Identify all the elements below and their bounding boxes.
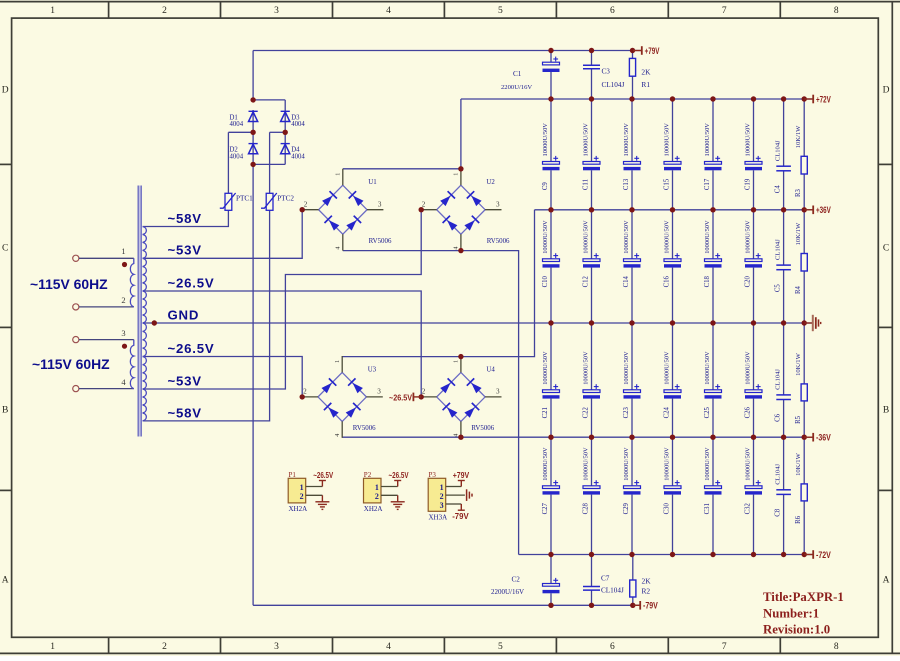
thermistor PTC2	[261, 193, 294, 210]
svg-text:C30: C30	[664, 502, 671, 514]
transformer primary pin 4	[73, 386, 79, 392]
svg-text:~26.5V: ~26.5V	[389, 470, 409, 480]
ground on P2 pin 2	[391, 495, 405, 509]
svg-text:XH3A: XH3A	[429, 513, 448, 521]
wire PTC1 bottom to ~58V tap	[143, 210, 229, 226]
svg-text:C29: C29	[623, 502, 630, 514]
svg-text:10K/1W: 10K/1W	[795, 352, 802, 375]
svg-text:2: 2	[304, 201, 308, 209]
svg-text:3: 3	[378, 201, 382, 209]
diode D1 4004	[230, 111, 258, 128]
svg-text:C24: C24	[664, 406, 671, 418]
capacitor C13 10000U/50V	[623, 99, 641, 210]
svg-text:6: 6	[610, 642, 615, 652]
wire +79V top rail	[253, 50, 641, 52]
resistor R3 10K/1W	[795, 99, 807, 210]
wire PTC1 top lead	[227, 132, 229, 193]
svg-text:CL104J: CL104J	[775, 239, 782, 260]
svg-text:1: 1	[121, 246, 125, 256]
svg-text:PTC2: PTC2	[277, 195, 294, 203]
svg-text:10000U/50V: 10000U/50V	[542, 351, 549, 385]
capacitor C28 10000U/50V	[583, 437, 601, 554]
svg-text:7: 7	[722, 642, 727, 652]
capacitor C22 10000U/50V	[583, 323, 601, 437]
svg-text:C18: C18	[704, 275, 711, 287]
power port +79V	[633, 46, 660, 56]
wire D2 leads	[252, 132, 254, 164]
capacitor C7 CL104J	[583, 555, 624, 606]
svg-text:C12: C12	[583, 275, 590, 287]
power port +72V	[804, 95, 831, 105]
power port -72V	[804, 550, 831, 560]
transformer T1	[30, 186, 146, 437]
svg-text:10000U/50V: 10000U/50V	[704, 220, 711, 254]
svg-text:1: 1	[300, 483, 304, 492]
wire ~26.5V tap to U4 pin2	[143, 291, 422, 397]
svg-text:2: 2	[300, 492, 304, 501]
svg-text:C17: C17	[704, 178, 711, 190]
svg-text:3: 3	[274, 642, 279, 652]
svg-text:-72V: -72V	[816, 550, 831, 560]
svg-text:4004: 4004	[291, 153, 305, 160]
svg-text:B: B	[883, 406, 889, 416]
wire -79V bottom rail	[253, 604, 640, 606]
svg-text:~58V: ~58V	[168, 211, 202, 226]
svg-text:C20: C20	[745, 275, 752, 287]
svg-text:10000U/50V: 10000U/50V	[583, 123, 590, 157]
svg-text:D: D	[883, 86, 890, 96]
svg-text:5: 5	[498, 6, 503, 16]
svg-text:10000U/50V: 10000U/50V	[664, 220, 671, 254]
svg-text:10000U/50V: 10000U/50V	[704, 123, 711, 157]
wire diode ladder mid left to PTC1	[228, 131, 253, 133]
svg-text:-79V: -79V	[643, 601, 658, 611]
svg-text:1: 1	[50, 642, 55, 652]
wire GND rail	[143, 322, 813, 324]
wire -72V rail	[519, 554, 813, 556]
svg-text:PTC1: PTC1	[236, 195, 253, 203]
svg-text:10K/1W: 10K/1W	[795, 125, 802, 148]
connector P1 XH2A	[288, 470, 333, 513]
diode D2 4004	[230, 144, 258, 161]
thermistor PTC1	[220, 193, 253, 210]
svg-text:+79V: +79V	[453, 470, 470, 480]
svg-text:3: 3	[274, 6, 279, 16]
svg-text:10000U/50V: 10000U/50V	[583, 447, 590, 481]
svg-text:C28: C28	[583, 502, 590, 514]
svg-text:10000U/50V: 10000U/50V	[583, 351, 590, 385]
svg-text:6: 6	[610, 6, 615, 16]
svg-text:10000U/50V: 10000U/50V	[664, 351, 671, 385]
svg-text:RV5006: RV5006	[353, 425, 376, 432]
svg-text:10K/1W: 10K/1W	[795, 222, 802, 245]
capacitor C4 CL104J	[775, 99, 791, 210]
svg-text:RV5006: RV5006	[487, 238, 510, 245]
svg-text:CL104J: CL104J	[775, 140, 782, 161]
capacitor C27 10000U/50V	[542, 437, 560, 554]
svg-text:-79V: -79V	[452, 511, 469, 521]
svg-text:C6: C6	[775, 413, 782, 422]
svg-text:3: 3	[496, 201, 500, 209]
svg-text:10000U/50V: 10000U/50V	[704, 447, 711, 481]
wire riser +79V rail to diode ladder	[252, 51, 254, 100]
capacitor C23 10000U/50V	[623, 323, 641, 437]
svg-text:10000U/50V: 10000U/50V	[623, 351, 630, 385]
bridge rectifier U1 RV5006	[302, 169, 392, 251]
resistor R4 10K/1W	[795, 210, 807, 323]
wire U3/U4 plus outputs to +36V rail	[342, 210, 534, 357]
svg-text:2K: 2K	[642, 577, 652, 586]
capacitor C5 CL104J	[775, 210, 791, 323]
svg-text:R1: R1	[641, 80, 650, 89]
svg-text:R4: R4	[795, 285, 802, 294]
bridge rectifier U3 RV5006	[302, 356, 383, 438]
wire U1/U2 plus outputs to +72V rail	[343, 99, 461, 169]
svg-text:C: C	[883, 244, 889, 254]
capacitor C18 10000U/50V	[704, 210, 722, 323]
svg-text:P1: P1	[289, 471, 297, 479]
svg-text:R2: R2	[642, 587, 651, 596]
svg-text:C7: C7	[601, 575, 610, 583]
wire diode bottom down to -79V rail	[252, 164, 254, 605]
svg-text:10K/1W: 10K/1W	[795, 452, 802, 475]
wire ~53V tap to U1 pin2	[143, 210, 303, 259]
svg-text:3: 3	[440, 501, 444, 510]
svg-text:10000U/50V: 10000U/50V	[623, 220, 630, 254]
svg-text:C27: C27	[542, 502, 549, 514]
svg-text:GND: GND	[168, 307, 200, 322]
diode D4 4004	[281, 144, 306, 161]
capacitor C31 10000U/50V	[704, 437, 722, 554]
svg-text:U1: U1	[368, 179, 377, 186]
capacitor C25 10000U/50V	[704, 323, 722, 437]
diode D3 4004	[281, 111, 306, 128]
capacitor C21 10000U/50V	[542, 323, 560, 437]
svg-text:XH2A: XH2A	[364, 505, 383, 513]
transformer primary winding 1	[130, 258, 133, 307]
transformer primary winding 2 polarity dot	[122, 344, 127, 349]
capacitor C11 10000U/50V	[583, 99, 601, 210]
svg-text:2: 2	[303, 388, 307, 396]
connector P2 XH2A	[364, 470, 409, 513]
svg-text:1: 1	[335, 173, 342, 176]
svg-text:10000U/50V: 10000U/50V	[583, 220, 590, 254]
capacitor C9 10000U/50V	[542, 99, 560, 210]
svg-text:~53V: ~53V	[168, 243, 202, 258]
svg-text:1: 1	[440, 483, 444, 492]
capacitor C12 10000U/50V	[583, 210, 601, 323]
svg-text:8: 8	[834, 6, 839, 16]
power port +79V on P3 pin 1	[458, 481, 465, 487]
svg-text:C13: C13	[623, 178, 630, 190]
power port -79V on P3 pin 3	[458, 504, 465, 510]
capacitor C2 2200U/16V	[491, 555, 560, 606]
svg-text:10000U/50V: 10000U/50V	[745, 351, 752, 385]
svg-text:C25: C25	[704, 406, 711, 418]
svg-text:10000U/50V: 10000U/50V	[745, 447, 752, 481]
power port ~26.5V on P2 pin 1	[394, 481, 401, 487]
svg-text:R6: R6	[795, 515, 802, 524]
svg-text:Number:1: Number:1	[763, 606, 819, 620]
svg-text:RV5006: RV5006	[471, 425, 494, 432]
svg-text:C4: C4	[775, 185, 782, 194]
wire lower ~26.5V tap to U3 pin2	[143, 357, 303, 397]
svg-text:C9: C9	[542, 182, 549, 191]
transformer primary winding 1 polarity dot	[122, 262, 127, 267]
svg-text:8: 8	[834, 642, 839, 652]
svg-text:~115V 60HZ: ~115V 60HZ	[30, 276, 108, 292]
svg-text:2: 2	[162, 6, 167, 16]
svg-text:5: 5	[498, 642, 503, 652]
svg-text:4: 4	[334, 434, 341, 437]
transformer primary winding 2	[130, 340, 133, 389]
capacitor C10 10000U/50V	[542, 210, 560, 323]
svg-text:U3: U3	[368, 366, 377, 373]
power port ~26.5V on P1 pin 1	[319, 481, 326, 487]
title block text	[763, 590, 844, 636]
svg-text:2200U/16V: 2200U/16V	[501, 84, 532, 91]
svg-text:XH2A: XH2A	[289, 505, 308, 513]
svg-text:-36V: -36V	[816, 433, 831, 443]
power port ~26.5V at U4 pin2	[389, 392, 421, 402]
svg-text:10000U/50V: 10000U/50V	[664, 123, 671, 157]
capacitor C15 10000U/50V	[664, 99, 682, 210]
svg-text:10000U/50V: 10000U/50V	[623, 447, 630, 481]
svg-text:C15: C15	[664, 178, 671, 190]
svg-text:C21: C21	[542, 407, 549, 418]
svg-text:~26.5V: ~26.5V	[313, 470, 333, 480]
power port -79V	[633, 601, 658, 611]
capacitor C3 CL104J	[583, 51, 624, 100]
svg-text:3: 3	[121, 328, 125, 338]
svg-text:2200U/16V: 2200U/16V	[491, 588, 524, 596]
transformer primary pin 1	[73, 255, 79, 261]
transformer secondary winding	[143, 227, 147, 421]
svg-text:4: 4	[335, 247, 342, 250]
svg-text:C8: C8	[775, 508, 782, 517]
wire lower ~53V tap to U2 pin2	[143, 210, 422, 389]
resistor R1 2K	[629, 51, 651, 100]
power port -36V	[804, 433, 831, 443]
wire D4 leads	[284, 132, 286, 164]
svg-text:A: A	[883, 576, 890, 586]
svg-text:1: 1	[375, 483, 379, 492]
svg-text:4004: 4004	[230, 121, 244, 128]
svg-text:Title:PaXPR-1: Title:PaXPR-1	[763, 590, 844, 604]
wire PTC2 bottom to lower ~58V tap	[143, 210, 270, 421]
svg-text:P3: P3	[429, 471, 437, 479]
ground on P1 pin 2	[315, 495, 329, 509]
ground on P3 pin 2 (rotated earth)	[467, 489, 472, 501]
capacitor C26 10000U/50V	[745, 323, 763, 437]
svg-text:C32: C32	[745, 502, 752, 514]
svg-text:CL104J: CL104J	[775, 463, 782, 484]
svg-text:CL104J: CL104J	[775, 369, 782, 390]
svg-text:10000U/50V: 10000U/50V	[664, 447, 671, 481]
svg-text:3: 3	[496, 388, 500, 396]
svg-text:~26.5V: ~26.5V	[389, 392, 412, 402]
wire PTC2 top lead	[269, 132, 271, 193]
svg-text:C5: C5	[775, 284, 782, 293]
svg-text:C22: C22	[583, 406, 590, 418]
wire diode ladder bottom D2-D4	[253, 163, 285, 165]
svg-text:+72V: +72V	[816, 95, 831, 105]
transformer primary pin 3	[73, 337, 79, 343]
wire diode ladder top D1-D3	[253, 99, 285, 101]
svg-text:4: 4	[453, 247, 460, 250]
svg-text:10000U/50V: 10000U/50V	[745, 123, 752, 157]
svg-text:+79V: +79V	[645, 46, 660, 56]
svg-text:10000U/50V: 10000U/50V	[542, 123, 549, 157]
svg-text:~26.5V: ~26.5V	[168, 341, 215, 356]
svg-text:3: 3	[377, 388, 381, 396]
svg-text:2: 2	[162, 642, 167, 652]
svg-text:D: D	[2, 86, 9, 96]
capacitor C32 10000U/50V	[745, 437, 763, 554]
bridge rectifier U4 RV5006	[420, 356, 501, 438]
svg-text:A: A	[2, 576, 9, 586]
capacitor C1 2200U/16V	[501, 51, 560, 100]
wire +72V rail	[461, 98, 813, 100]
wire D1 anode lead	[252, 110, 254, 132]
svg-text:2: 2	[440, 492, 444, 501]
capacitor C24 10000U/50V	[664, 323, 682, 437]
svg-text:10000U/50V: 10000U/50V	[542, 220, 549, 254]
svg-text:1: 1	[453, 173, 460, 176]
svg-text:C2: C2	[512, 576, 521, 584]
svg-text:R3: R3	[795, 188, 802, 197]
svg-text:C10: C10	[542, 275, 549, 287]
svg-text:B: B	[2, 406, 8, 416]
capacitor C29 10000U/50V	[623, 437, 641, 554]
svg-text:1: 1	[50, 6, 55, 16]
svg-text:C31: C31	[704, 503, 711, 514]
resistor R2 2K	[630, 555, 651, 606]
svg-text:4: 4	[386, 642, 391, 652]
svg-text:C3: C3	[602, 68, 611, 76]
svg-text:~53V: ~53V	[168, 373, 202, 388]
svg-text:U4: U4	[486, 366, 495, 373]
svg-text:R5: R5	[795, 415, 802, 424]
svg-text:C19: C19	[745, 178, 752, 190]
capacitor C8 CL104J	[775, 437, 791, 554]
svg-text:C14: C14	[623, 275, 630, 287]
svg-text:~26.5V: ~26.5V	[168, 275, 215, 290]
svg-text:Revision:1.0: Revision:1.0	[763, 622, 830, 636]
svg-text:10000U/50V: 10000U/50V	[623, 123, 630, 157]
wire -36V rail with U3/U4 minus outputs	[342, 436, 812, 438]
wire D3 leads	[284, 100, 286, 132]
svg-text:C23: C23	[623, 406, 630, 418]
svg-text:C26: C26	[745, 406, 752, 418]
svg-text:2K: 2K	[641, 68, 651, 77]
capacitor C30 10000U/50V	[664, 437, 682, 554]
svg-text:7: 7	[722, 6, 727, 16]
svg-text:+36V: +36V	[816, 205, 831, 215]
svg-text:RV5006: RV5006	[369, 238, 392, 245]
capacitor C6 CL104J	[775, 323, 791, 437]
svg-text:C1: C1	[513, 70, 522, 78]
resistor R6 10K/1W	[795, 437, 807, 554]
capacitor C17 10000U/50V	[704, 99, 722, 210]
connector P3 XH3A	[428, 470, 472, 521]
wire +36V rail	[535, 209, 813, 211]
capacitor C16 10000U/50V	[664, 210, 682, 323]
svg-text:C: C	[2, 244, 8, 254]
ground symbol on GND rail	[804, 315, 821, 331]
resistor R5 10K/1W	[795, 323, 807, 437]
power port +36V	[804, 205, 831, 215]
svg-text:1: 1	[453, 360, 460, 363]
svg-text:2: 2	[121, 295, 125, 305]
svg-text:4004: 4004	[291, 121, 305, 128]
svg-text:10000U/50V: 10000U/50V	[542, 447, 549, 481]
svg-text:CL104J: CL104J	[602, 81, 625, 89]
svg-text:CL104J: CL104J	[601, 587, 624, 595]
transformer primary pin 2	[73, 304, 79, 310]
wire diode ladder mid right to PTC2	[270, 131, 286, 133]
svg-text:~58V: ~58V	[168, 405, 202, 420]
capacitor C19 10000U/50V	[745, 99, 763, 210]
bridge rectifier U2 RV5006	[420, 169, 510, 251]
svg-text:10000U/50V: 10000U/50V	[745, 220, 752, 254]
svg-text:U2: U2	[486, 179, 495, 186]
svg-text:P2: P2	[364, 471, 372, 479]
svg-text:C16: C16	[664, 275, 671, 287]
capacitor C20 10000U/50V	[745, 210, 763, 323]
svg-text:4: 4	[386, 6, 391, 16]
svg-text:2: 2	[375, 492, 379, 501]
svg-text:4004: 4004	[230, 153, 244, 160]
svg-text:~115V 60HZ: ~115V 60HZ	[32, 356, 110, 372]
wire U1/U2 minus outputs down to -72V rail	[343, 251, 519, 555]
capacitor C14 10000U/50V	[623, 210, 641, 323]
svg-text:C11: C11	[583, 179, 590, 190]
svg-text:10000U/50V: 10000U/50V	[704, 351, 711, 385]
svg-text:1: 1	[334, 360, 341, 363]
transformer core	[137, 186, 139, 437]
